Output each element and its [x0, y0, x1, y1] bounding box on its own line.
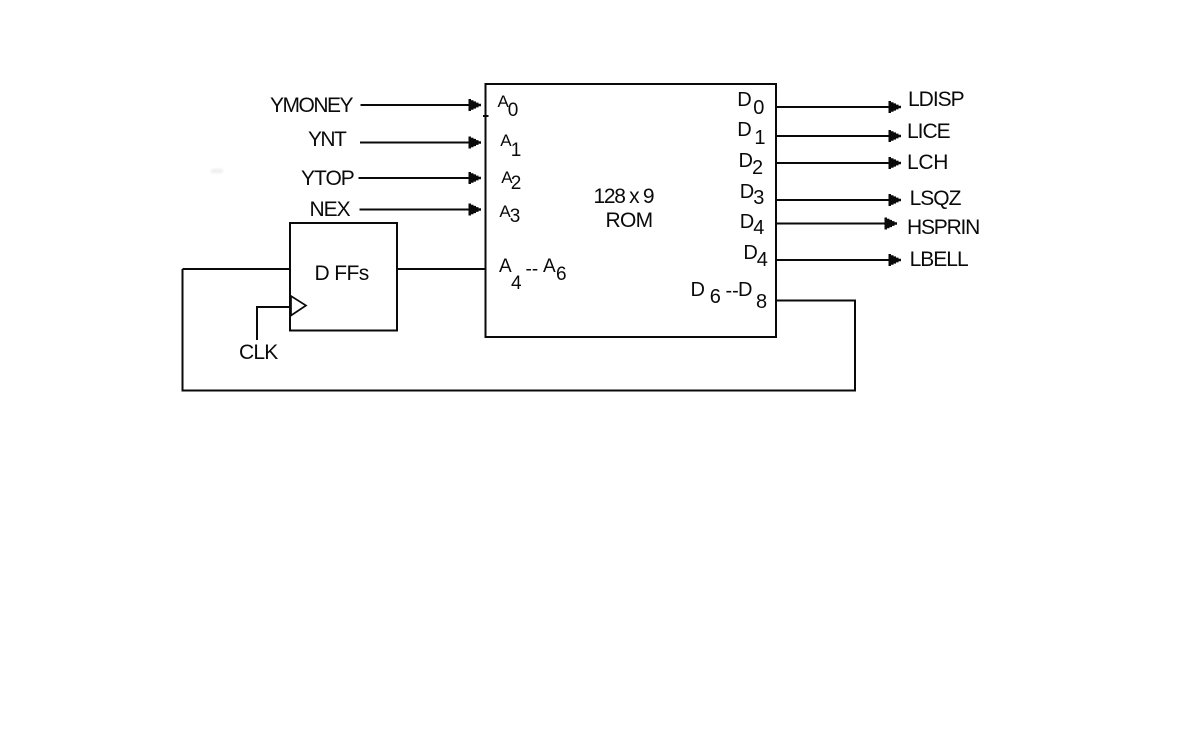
label ROM — [606, 210, 653, 231]
wire YTOP to A2 — [359, 177, 470, 179]
pin label A3 — [499, 203, 510, 220]
arrowhead LICE — [889, 130, 902, 142]
pin label D0 — [737, 90, 751, 110]
net label LCH — [907, 152, 948, 173]
arrowhead YNT — [469, 137, 482, 149]
arrowhead HSPRIN — [885, 218, 898, 230]
wire D4 to HSPRIN — [776, 223, 886, 225]
wire D4 to LBELL — [776, 259, 890, 261]
pin label A1 — [500, 132, 511, 149]
scan smudge artifact — [211, 169, 223, 173]
ROM U1 box 128x9 — [486, 84, 777, 337]
arrowhead YTOP — [469, 172, 482, 184]
wire CLK — [257, 307, 290, 340]
wire D0 to LDISP — [776, 106, 890, 108]
pin label D4 — [740, 212, 754, 232]
wire NEX to A3 — [360, 209, 470, 211]
label 128 x 9 — [594, 186, 654, 207]
arrowhead YMONEY — [469, 99, 482, 111]
clock edge triangle — [291, 296, 306, 316]
net label LSQZ — [910, 188, 961, 209]
wire YMONEY to A0 — [361, 104, 470, 106]
pin label A2 — [501, 169, 512, 186]
wire D FFs output bus A4-A6 — [397, 268, 486, 270]
net label YTOP — [301, 168, 354, 189]
arrowhead LDISP — [889, 101, 902, 113]
net label HSPRIN — [907, 217, 979, 238]
pin label A0 — [498, 93, 509, 110]
wire feedback into D FFs — [183, 268, 291, 270]
pin stub tick A0 — [483, 115, 489, 117]
arrowhead NEX — [469, 204, 482, 216]
D flip-flops U2 box — [290, 223, 397, 331]
label D FFs — [315, 263, 369, 284]
net label YNT — [308, 129, 345, 150]
wire D2 to LCH — [776, 162, 890, 164]
net label LBELL — [910, 249, 968, 270]
pin label A4--A6 — [499, 257, 512, 276]
pin label D2 — [739, 151, 753, 171]
arrowhead LCH — [889, 157, 902, 169]
wire YNT to A1 — [360, 142, 470, 144]
wire D3 to LSQZ — [776, 199, 890, 201]
pin label D1 — [737, 120, 751, 140]
wire feedback loop D6-D8 — [183, 269, 856, 391]
pin label D3 — [740, 182, 754, 202]
pin label D4 second — [743, 243, 757, 263]
net label YMONEY — [270, 95, 352, 116]
net label CLK — [239, 342, 277, 363]
net label NEX — [310, 199, 350, 220]
net label LDISP — [908, 89, 964, 110]
arrowhead LSQZ — [889, 194, 902, 206]
net label LICE — [907, 121, 950, 142]
pin label D6--D8 — [691, 280, 705, 300]
wire D1 to LICE — [776, 135, 890, 137]
arrowhead LBELL — [889, 254, 902, 266]
